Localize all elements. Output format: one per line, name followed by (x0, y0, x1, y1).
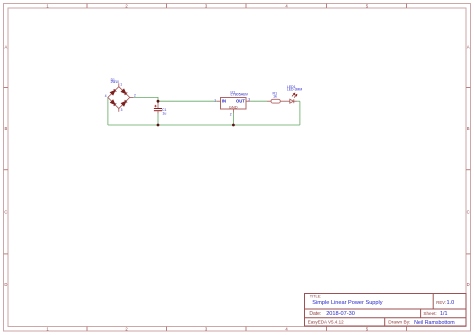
svg-text:B: B (467, 126, 470, 131)
frame row ticks right (466, 88, 471, 254)
wire: bottom rail (108, 124, 300, 126)
capacitor C1 plates (154, 108, 162, 110)
svg-text:Simple Linear Power Supply: Simple Linear Power Supply (312, 300, 382, 306)
U1 pin 2 stub (232, 109, 234, 113)
op-amp U1 regulator body (221, 98, 247, 110)
svg-text:3: 3 (121, 108, 123, 112)
U1 pin 1 stub (217, 100, 221, 102)
bridge rectifier D1 outline (108, 87, 130, 109)
frame row ticks left (4, 88, 9, 254)
D1 diode SE (121, 100, 127, 106)
LED1 lead to wire (294, 100, 297, 102)
D1 pin stub right (130, 96, 134, 98)
svg-text:3: 3 (248, 97, 250, 101)
svg-text:1/1: 1/1 (440, 311, 448, 317)
D1 diode NW (110, 89, 116, 95)
svg-text:REV:: REV: (436, 300, 446, 305)
wire: bridge left pin down to bottom rail (107, 97, 109, 125)
svg-text:IN: IN (222, 99, 226, 104)
wire: U1 GND to bottom rail (232, 113, 234, 126)
svg-text:EasyEDA V5.4.12: EasyEDA V5.4.12 (308, 320, 344, 325)
frame row letters left (4, 45, 7, 288)
svg-text:1: 1 (120, 83, 122, 87)
svg-text:B: B (5, 126, 8, 131)
wire: bridge pin2 to cap junction with jog (133, 97, 158, 101)
wire: right vertical from LED cathode corner down to rail (299, 101, 301, 125)
svg-text:OUT: OUT (236, 99, 245, 104)
frame row letters right (467, 45, 470, 288)
wire: U1 OUT to R1 (250, 100, 267, 102)
wire: cap junction to U1 IN (158, 100, 217, 102)
junction dot at cap bottom (157, 124, 160, 127)
svg-text:Drawn By:: Drawn By: (388, 320, 410, 326)
D1 diode SW (111, 100, 117, 106)
wire: cap lower lead to bottom rail (157, 114, 159, 126)
capacitor C1 lower lead (157, 111, 159, 113)
svg-text:LED-3MM: LED-3MM (287, 88, 302, 92)
frame column ticks bottom (87, 327, 407, 332)
D1 pin stub bottom (118, 109, 120, 112)
svg-text:TITLE:: TITLE: (310, 294, 322, 299)
svg-text:C: C (467, 210, 470, 215)
svg-text:2: 2 (134, 93, 136, 97)
svg-text:A: A (5, 45, 8, 50)
C1 plus sign (154, 105, 156, 107)
svg-text:1u: 1u (162, 112, 166, 116)
svg-text:1.0: 1.0 (447, 300, 455, 306)
svg-text:D: D (467, 282, 470, 287)
title block frame (305, 294, 467, 327)
svg-text:4: 4 (105, 94, 107, 98)
svg-text:1k: 1k (273, 94, 277, 98)
svg-text:D: D (4, 282, 7, 287)
LED1 emission arrows (292, 93, 297, 98)
svg-text:2W10: 2W10 (111, 80, 120, 84)
frame column numbers bottom (46, 327, 369, 332)
resistor R1 body (271, 99, 280, 103)
D1 pin stub top (118, 83, 120, 86)
svg-text:Neil Ramsbottom: Neil Ramsbottom (414, 320, 455, 326)
svg-text:C: C (4, 210, 7, 215)
capacitor C1 upper lead (157, 101, 159, 108)
svg-text:2018-07-30: 2018-07-30 (326, 311, 355, 317)
svg-text:L7805ABV: L7805ABV (231, 93, 249, 97)
svg-text:A: A (467, 45, 470, 50)
svg-text:GND: GND (229, 104, 238, 109)
junction dot at U1 GND on rail (232, 124, 235, 127)
junction dot at cap top (157, 100, 160, 103)
resistor R1 leads (267, 100, 271, 102)
D1 diode NE (121, 89, 127, 95)
svg-text:Sheet:: Sheet: (423, 311, 436, 316)
LED LED1 triangle (290, 99, 294, 103)
svg-text:1: 1 (214, 99, 216, 103)
frame column ticks top (87, 4, 407, 9)
U1 pin 3 stub (246, 100, 250, 102)
svg-text:Date:: Date: (309, 311, 321, 317)
LED1 cathode bar (293, 99, 295, 103)
svg-text:2: 2 (230, 112, 232, 116)
wire: LED cathode to corner (297, 100, 300, 102)
frame column numbers top (46, 3, 369, 8)
